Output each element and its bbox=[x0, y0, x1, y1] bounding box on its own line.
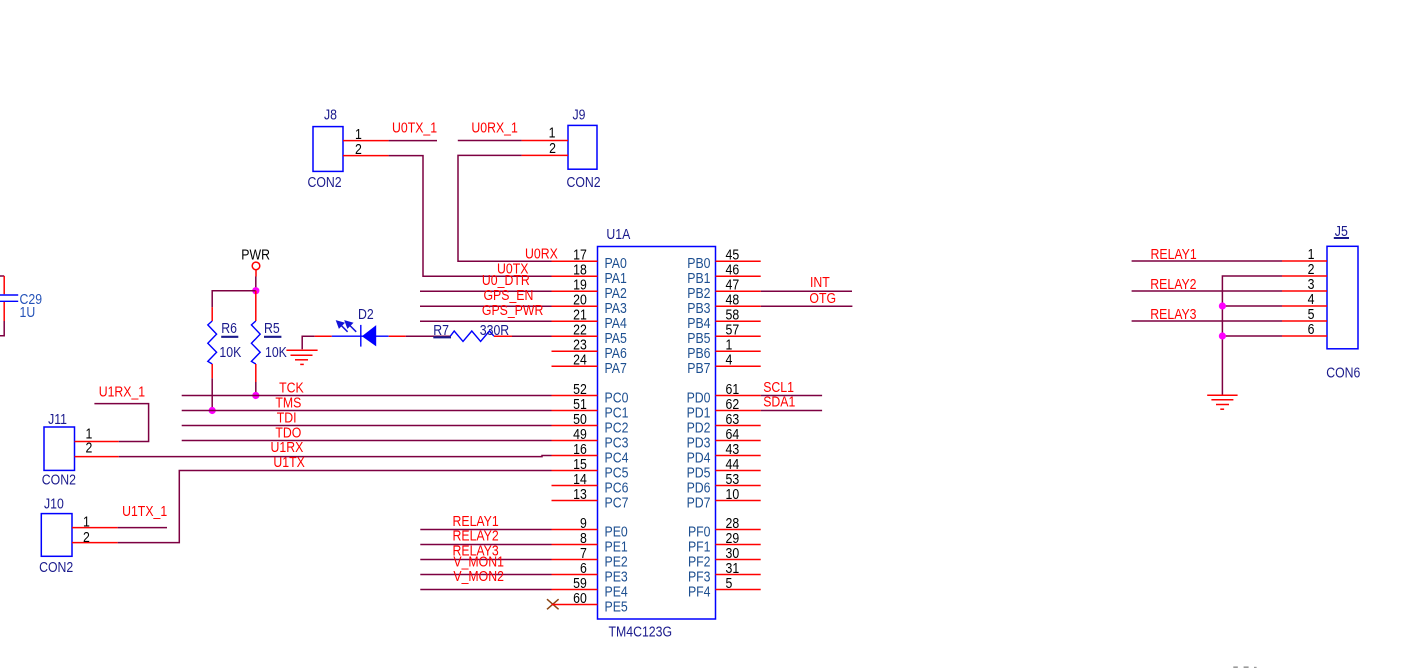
svg-text:64: 64 bbox=[726, 426, 740, 442]
svg-text:PF2: PF2 bbox=[688, 553, 711, 569]
resistor R7 zigzag bbox=[450, 331, 494, 341]
svg-text:29: 29 bbox=[726, 530, 740, 546]
svg-text:17: 17 bbox=[573, 246, 587, 262]
wire U0RX_1 to J9 pin1 bbox=[458, 140, 522, 142]
connector J10 (CON2) bbox=[41, 514, 72, 557]
LED D2 arrows bbox=[337, 321, 356, 332]
pin 30 PF2 bbox=[716, 559, 761, 561]
svg-text:10K: 10K bbox=[265, 344, 287, 360]
svg-text:TMS: TMS bbox=[275, 394, 301, 410]
svg-text:U1RX: U1RX bbox=[271, 439, 304, 455]
pin 23 PA6 bbox=[552, 350, 598, 352]
wire junction to R6 top bbox=[212, 291, 256, 308]
ground symbol (right) bbox=[1207, 394, 1237, 396]
svg-text:PB0: PB0 bbox=[687, 255, 711, 271]
J9 pin 1 bbox=[522, 140, 568, 142]
wire TMS to PC1 bbox=[182, 410, 552, 412]
svg-text:10K: 10K bbox=[219, 344, 241, 360]
pin 62 PD1 bbox=[716, 410, 761, 412]
svg-text:PB7: PB7 bbox=[687, 360, 710, 376]
wire J11 pin1 to U1RX_1 bbox=[94, 404, 148, 442]
pin 43 PD4 bbox=[716, 455, 761, 457]
svg-text:U1A: U1A bbox=[606, 226, 631, 242]
pin 29 PF1 bbox=[716, 544, 761, 546]
svg-text:61: 61 bbox=[726, 381, 740, 397]
svg-text:49: 49 bbox=[573, 426, 587, 442]
J9 pin 2 bbox=[522, 154, 568, 156]
svg-text:U1TX: U1TX bbox=[273, 454, 304, 470]
wire ground to D2 cathode bbox=[302, 336, 315, 349]
svg-text:6: 6 bbox=[1308, 321, 1315, 337]
wire R5 bottom to TCK row bbox=[255, 382, 257, 396]
svg-text:PD6: PD6 bbox=[687, 479, 711, 495]
svg-text:R6: R6 bbox=[221, 320, 237, 336]
svg-text:47: 47 bbox=[726, 276, 740, 292]
svg-text:RELAY1: RELAY1 bbox=[1151, 246, 1197, 262]
svg-text:4: 4 bbox=[1308, 291, 1315, 307]
J10 pin 2 bbox=[72, 542, 118, 544]
pin 59 PE4 bbox=[552, 589, 598, 591]
connector J9 (CON2) bbox=[568, 125, 597, 169]
wire PWR to junction bbox=[255, 277, 257, 291]
pin 10 PD7 bbox=[716, 500, 761, 502]
J5 pin 2 bbox=[1282, 275, 1327, 277]
wire TCK to PC0 bbox=[182, 395, 552, 397]
svg-text:2: 2 bbox=[86, 439, 93, 455]
svg-text:PB3: PB3 bbox=[687, 300, 711, 316]
wire RELAY2 to PE1 bbox=[420, 544, 551, 546]
wire GPS_EN to PA3 bbox=[420, 305, 552, 307]
C29 bottom lead bbox=[3, 302, 5, 321]
svg-text:5: 5 bbox=[1308, 306, 1315, 322]
svg-text:4: 4 bbox=[726, 351, 733, 367]
svg-text:PC4: PC4 bbox=[605, 449, 629, 465]
wire RELAY1 to PE0 bbox=[420, 529, 551, 531]
svg-text:2: 2 bbox=[355, 141, 362, 157]
svg-text:19: 19 bbox=[573, 276, 587, 292]
svg-text:53: 53 bbox=[726, 471, 740, 487]
wire RELAY3 to PE2 bbox=[420, 559, 551, 561]
connector J5 (CON6) bbox=[1327, 246, 1358, 348]
svg-text:PA0: PA0 bbox=[605, 255, 628, 271]
svg-text:PA4: PA4 bbox=[605, 315, 628, 331]
pin 13 PC7 bbox=[552, 500, 598, 502]
svg-text:PE3: PE3 bbox=[605, 568, 629, 584]
svg-text:TM4C123G: TM4C123G bbox=[609, 623, 673, 639]
junction dot R5/TCK bbox=[252, 392, 259, 399]
svg-text:51: 51 bbox=[573, 396, 587, 412]
svg-text:21: 21 bbox=[573, 306, 587, 322]
svg-text:PB2: PB2 bbox=[687, 285, 710, 301]
LED D2 symbol bbox=[332, 335, 389, 337]
ground symbol (left) bbox=[286, 349, 317, 351]
svg-text:INT: INT bbox=[810, 274, 830, 290]
wire V_MON1 to PE3 bbox=[420, 574, 551, 576]
svg-text:8: 8 bbox=[580, 530, 587, 546]
wire J9 pin2 to U0RX row bbox=[458, 155, 552, 261]
svg-text:43: 43 bbox=[726, 441, 740, 457]
pin 19 PA2 bbox=[552, 290, 598, 292]
svg-text:9: 9 bbox=[580, 515, 587, 531]
svg-text:RELAY2: RELAY2 bbox=[1150, 276, 1196, 292]
svg-text:1U: 1U bbox=[20, 304, 36, 320]
pin 49 PC3 bbox=[552, 440, 598, 442]
svg-text:U1TX_1: U1TX_1 bbox=[122, 503, 167, 519]
J5 pin 3 bbox=[1282, 290, 1327, 292]
pin 31 PF3 bbox=[716, 574, 761, 576]
cut-off gray text bottom right bbox=[1233, 666, 1256, 668]
pin 7 PE2 bbox=[552, 559, 598, 561]
svg-text:PD7: PD7 bbox=[687, 494, 711, 510]
wire V_MON2 to PE4 bbox=[420, 589, 551, 591]
svg-text:U0RX: U0RX bbox=[525, 245, 558, 261]
svg-text:PD4: PD4 bbox=[687, 449, 711, 465]
J8 pin 2 bbox=[343, 155, 389, 157]
R6 top lead bbox=[211, 307, 213, 321]
svg-text:1: 1 bbox=[355, 126, 362, 142]
D2 anode pin bbox=[389, 335, 406, 337]
svg-text:48: 48 bbox=[726, 291, 740, 307]
R7 right lead bbox=[494, 335, 512, 337]
J8 pin 1 bbox=[343, 140, 389, 142]
svg-text:13: 13 bbox=[573, 486, 587, 502]
svg-text:PE2: PE2 bbox=[605, 553, 628, 569]
svg-text:PF4: PF4 bbox=[688, 583, 711, 599]
svg-text:24: 24 bbox=[573, 351, 587, 367]
svg-text:10: 10 bbox=[726, 486, 740, 502]
pin 24 PA7 bbox=[552, 365, 598, 367]
pin 14 PC6 bbox=[552, 485, 598, 487]
svg-text:GPS_EN: GPS_EN bbox=[484, 287, 534, 303]
IC U1A TM4C123G body bbox=[598, 247, 716, 620]
svg-text:23: 23 bbox=[573, 336, 587, 352]
svg-text:3: 3 bbox=[1308, 276, 1315, 292]
junction dot J5 pin6 bbox=[1219, 332, 1226, 339]
svg-text:PC7: PC7 bbox=[605, 494, 629, 510]
svg-text:PC6: PC6 bbox=[605, 479, 629, 495]
pin 17 PA0 bbox=[552, 260, 598, 262]
J5 pin 6 bbox=[1282, 335, 1327, 337]
pin 58 PB4 bbox=[716, 320, 761, 322]
underline R6 bbox=[221, 336, 238, 338]
pin 18 PA1 bbox=[552, 275, 598, 277]
pin 61 PD0 bbox=[716, 395, 761, 397]
underline R5 bbox=[264, 336, 281, 338]
wire TDI to PC2 bbox=[182, 425, 552, 427]
pin 1 PB6 bbox=[716, 350, 761, 352]
svg-text:15: 15 bbox=[573, 456, 587, 472]
J10 pin 1 bbox=[72, 527, 118, 529]
svg-text:CON6: CON6 bbox=[1326, 365, 1360, 381]
svg-text:PE0: PE0 bbox=[605, 523, 629, 539]
wire C29 bottom bbox=[0, 321, 4, 336]
resistor R5 zigzag bbox=[251, 321, 260, 364]
svg-text:CON2: CON2 bbox=[39, 559, 73, 575]
wire J5 pins 2/4/6 to ground bbox=[1222, 276, 1282, 395]
pin 28 PF0 bbox=[716, 529, 761, 531]
J11 pin 2 bbox=[75, 456, 119, 458]
svg-text:PC0: PC0 bbox=[605, 389, 629, 405]
svg-text:PE5: PE5 bbox=[605, 598, 629, 614]
wire R7 to PA5 bbox=[512, 335, 552, 337]
svg-text:GPS_PWR: GPS_PWR bbox=[482, 302, 544, 318]
svg-text:PC2: PC2 bbox=[605, 419, 629, 435]
pin 45 PB0 bbox=[716, 260, 761, 262]
svg-text:PF1: PF1 bbox=[688, 538, 711, 554]
J5 pin 1 bbox=[1282, 260, 1327, 262]
svg-text:PB4: PB4 bbox=[687, 315, 711, 331]
wire D2 to R7 bbox=[406, 335, 451, 337]
svg-text:U0_DTR: U0_DTR bbox=[482, 272, 530, 288]
svg-text:PA1: PA1 bbox=[605, 270, 627, 286]
R5 top lead bbox=[255, 291, 257, 321]
svg-text:2: 2 bbox=[1308, 261, 1315, 277]
pin 15 PC5 bbox=[552, 470, 598, 472]
R6 bottom lead bbox=[211, 364, 213, 378]
svg-text:PA6: PA6 bbox=[605, 345, 628, 361]
svg-text:PB1: PB1 bbox=[687, 270, 710, 286]
connector J11 (CON2) bbox=[44, 427, 75, 470]
svg-text:U0TX_1: U0TX_1 bbox=[392, 119, 437, 135]
wire SDA1 from PD1 bbox=[761, 410, 822, 412]
svg-text:V_MON2: V_MON2 bbox=[453, 568, 504, 584]
wire J11 pin2 to PC4 (U1RX net) bbox=[119, 456, 552, 457]
svg-text:OTG: OTG bbox=[809, 290, 836, 306]
J11 pin 1 bbox=[75, 441, 119, 443]
junction dot J5 pin4 bbox=[1219, 302, 1226, 309]
wire J8 pin2 to U0TX row bbox=[389, 156, 552, 277]
svg-text:2: 2 bbox=[83, 529, 90, 545]
svg-text:20: 20 bbox=[573, 291, 587, 307]
svg-text:CON2: CON2 bbox=[42, 471, 76, 487]
C29 top lead bbox=[3, 276, 5, 294]
pin 46 PB1 bbox=[716, 275, 761, 277]
svg-text:PD3: PD3 bbox=[687, 434, 711, 450]
pin 4 PB7 bbox=[716, 365, 761, 367]
svg-text:PA5: PA5 bbox=[605, 330, 628, 346]
power port PWR circle bbox=[252, 262, 260, 270]
svg-text:30: 30 bbox=[726, 545, 740, 561]
svg-text:PD1: PD1 bbox=[687, 404, 711, 420]
wire R6 bottom to TMS row bbox=[211, 378, 213, 410]
pin 6 PE3 bbox=[552, 574, 598, 576]
capacitor C29 plates bbox=[0, 294, 18, 296]
svg-text:PA7: PA7 bbox=[605, 360, 627, 376]
wire U0_DTR to PA2 bbox=[420, 290, 552, 292]
svg-text:CON2: CON2 bbox=[308, 174, 342, 190]
svg-text:1: 1 bbox=[1308, 246, 1315, 262]
svg-text:U1RX_1: U1RX_1 bbox=[99, 383, 145, 399]
pin 63 PD2 bbox=[716, 425, 761, 427]
junction dot PWR node bbox=[252, 287, 259, 294]
svg-text:1: 1 bbox=[549, 124, 556, 140]
svg-text:PF3: PF3 bbox=[688, 568, 711, 584]
pin 47 PB2 bbox=[716, 290, 761, 292]
svg-text:14: 14 bbox=[573, 471, 587, 487]
svg-text:2: 2 bbox=[549, 140, 556, 156]
no-connect X on PE5 bbox=[547, 599, 559, 609]
wire RELAY1 to J5 pin1 bbox=[1132, 260, 1282, 262]
pin 64 PD3 bbox=[716, 440, 761, 442]
pin 9 PE0 bbox=[552, 529, 598, 531]
svg-text:58: 58 bbox=[726, 306, 740, 322]
svg-text:18: 18 bbox=[573, 261, 587, 277]
svg-text:PD5: PD5 bbox=[687, 464, 711, 480]
PWR stub bbox=[255, 270, 257, 277]
wire J10 pin2 to U1TX row bbox=[118, 471, 552, 543]
svg-text:PE1: PE1 bbox=[605, 538, 628, 554]
svg-text:TDI: TDI bbox=[277, 409, 297, 425]
D2 cathode pin bbox=[315, 335, 332, 337]
svg-text:PA2: PA2 bbox=[605, 285, 627, 301]
wire OTG from PB3 bbox=[761, 305, 853, 307]
svg-text:6: 6 bbox=[580, 560, 587, 576]
svg-text:PB6: PB6 bbox=[687, 345, 711, 361]
pin 53 PD6 bbox=[716, 485, 761, 487]
wire U0TX_1 from J8 pin1 bbox=[389, 140, 437, 142]
wire GPS_PWR to PA4 bbox=[420, 320, 552, 322]
svg-text:16: 16 bbox=[573, 441, 587, 457]
pin 16 PC4 bbox=[552, 455, 598, 457]
svg-text:PC1: PC1 bbox=[605, 404, 629, 420]
pin 51 PC1 bbox=[552, 410, 598, 412]
svg-text:7: 7 bbox=[580, 545, 587, 561]
svg-text:CON2: CON2 bbox=[567, 174, 601, 190]
junction dot R6/TMS bbox=[209, 407, 216, 414]
underline J5 bbox=[1334, 237, 1349, 239]
pin 44 PD5 bbox=[716, 470, 761, 472]
svg-text:60: 60 bbox=[573, 590, 587, 606]
svg-text:5: 5 bbox=[726, 575, 733, 591]
pin 60 PE5 bbox=[552, 604, 598, 606]
svg-text:U0RX_1: U0RX_1 bbox=[471, 119, 517, 135]
wire RELAY2 to J5 pin3 bbox=[1132, 290, 1282, 292]
svg-text:J11: J11 bbox=[48, 411, 67, 427]
wire SCL1 from PD0 bbox=[761, 395, 822, 397]
svg-text:22: 22 bbox=[573, 321, 587, 337]
underline R7 bbox=[433, 336, 451, 338]
svg-text:PA3: PA3 bbox=[605, 300, 628, 316]
pin 52 PC0 bbox=[552, 395, 598, 397]
svg-text:PC3: PC3 bbox=[605, 434, 629, 450]
pin 48 PB3 bbox=[716, 305, 761, 307]
J5 pin 4 bbox=[1282, 305, 1327, 307]
svg-text:J8: J8 bbox=[324, 106, 337, 122]
svg-text:1: 1 bbox=[726, 336, 733, 352]
wire C29 top bbox=[0, 275, 4, 277]
svg-text:PD2: PD2 bbox=[687, 419, 711, 435]
wire U1TX_1 from J10 pin1 bbox=[118, 527, 167, 529]
svg-text:50: 50 bbox=[573, 411, 587, 427]
svg-text:62: 62 bbox=[726, 396, 740, 412]
pin 21 PA4 bbox=[552, 320, 598, 322]
svg-text:PD0: PD0 bbox=[687, 389, 711, 405]
wire RELAY3 to J5 pin5 bbox=[1132, 320, 1282, 322]
svg-text:PC5: PC5 bbox=[605, 464, 629, 480]
svg-text:1: 1 bbox=[83, 513, 90, 529]
J5 pin 5 bbox=[1282, 320, 1327, 322]
svg-text:R7: R7 bbox=[433, 322, 449, 338]
wire TDO to PC3 bbox=[182, 440, 552, 442]
svg-text:45: 45 bbox=[726, 246, 740, 262]
resistor R6 zigzag bbox=[208, 321, 217, 364]
svg-text:59: 59 bbox=[573, 575, 587, 591]
svg-text:PWR: PWR bbox=[241, 246, 270, 262]
svg-text:PB5: PB5 bbox=[687, 330, 711, 346]
svg-text:PF0: PF0 bbox=[688, 523, 711, 539]
svg-text:J5: J5 bbox=[1335, 223, 1348, 239]
wire INT from PB2 bbox=[761, 290, 852, 292]
svg-text:52: 52 bbox=[573, 381, 587, 397]
pin 20 PA3 bbox=[552, 305, 598, 307]
svg-text:J10: J10 bbox=[44, 495, 64, 511]
svg-text:31: 31 bbox=[726, 560, 740, 576]
pin 5 PF4 bbox=[716, 589, 761, 591]
svg-text:44: 44 bbox=[726, 456, 740, 472]
svg-text:63: 63 bbox=[726, 411, 740, 427]
svg-text:RELAY3: RELAY3 bbox=[1150, 306, 1197, 322]
connector J8 (CON2) bbox=[313, 127, 343, 172]
svg-text:R5: R5 bbox=[264, 320, 280, 336]
pin 8 PE1 bbox=[552, 544, 598, 546]
pin 22 PA5 bbox=[552, 335, 598, 337]
svg-text:D2: D2 bbox=[358, 306, 374, 322]
svg-text:TCK: TCK bbox=[279, 379, 304, 395]
svg-text:PE4: PE4 bbox=[605, 583, 629, 599]
svg-text:J9: J9 bbox=[573, 106, 586, 122]
svg-text:28: 28 bbox=[726, 515, 740, 531]
pin 57 PB5 bbox=[716, 335, 761, 337]
svg-text:SDA1: SDA1 bbox=[763, 393, 795, 409]
pin 50 PC2 bbox=[552, 425, 598, 427]
svg-text:46: 46 bbox=[726, 261, 740, 277]
svg-text:57: 57 bbox=[726, 321, 740, 337]
R5 bottom lead bbox=[255, 364, 257, 382]
